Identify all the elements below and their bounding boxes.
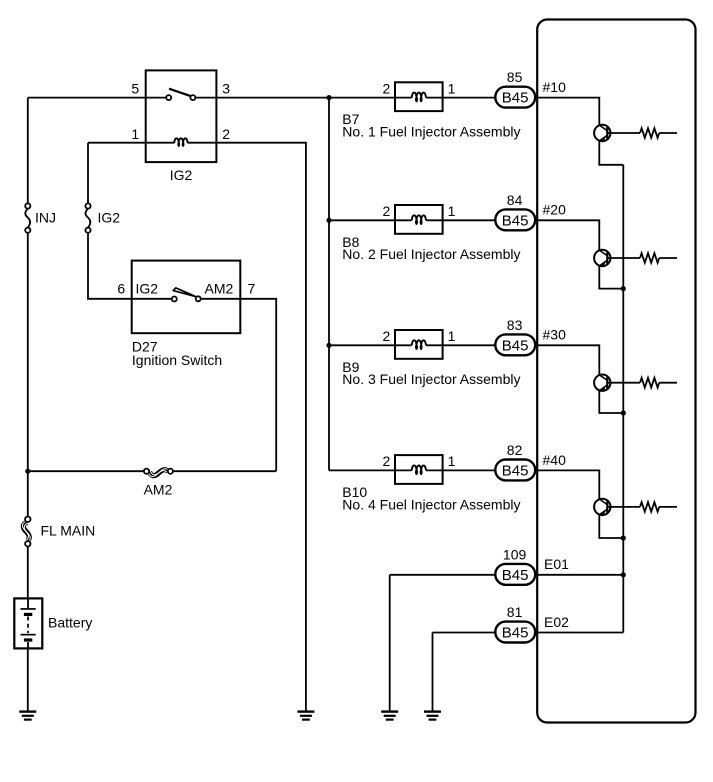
transistor (injector driver 4) (594, 499, 610, 516)
svg-text:IG2: IG2 (98, 210, 121, 226)
resistor (driver 4 base) (640, 502, 659, 512)
ground (E01) (381, 710, 398, 720)
relay IG2 box (146, 70, 217, 162)
svg-text:IG2: IG2 (170, 167, 193, 183)
transistor (injector driver 1) (594, 125, 610, 142)
svg-text:1: 1 (448, 80, 456, 96)
wire: filter to connector B45 row 1 (443, 97, 496, 99)
wire: D27 pin 7 down to AM2 wire (x=276.2) (201, 299, 277, 471)
svg-text:1: 1 (448, 203, 456, 219)
fusible link AM2 (144, 469, 173, 477)
svg-text:84: 84 (507, 192, 523, 208)
noise filter (injector) B8 box (395, 205, 443, 234)
ignition switch D27 box (132, 261, 241, 334)
svg-text:1: 1 (131, 126, 139, 142)
wire: transistor base (607, 132, 640, 134)
node: feed rail junction row 1 (326, 95, 331, 100)
svg-text:3: 3 (222, 80, 230, 96)
wire: E02 ground wire (y=632.5) (433, 633, 624, 712)
svg-text:FL MAIN: FL MAIN (41, 523, 96, 539)
connector B45 pin 85 (495, 87, 535, 108)
connector B45 pin 83 (495, 334, 535, 355)
wire: ECU pin #20 to transistor collector (535, 220, 599, 250)
wire: IG2 fuse vertical (x=88) (88, 143, 172, 299)
ground (E02) (424, 710, 441, 720)
svg-text:83: 83 (507, 317, 523, 333)
svg-text:Ignition Switch: Ignition Switch (132, 352, 222, 368)
injector coil B9 (395, 344, 443, 346)
svg-text:E02: E02 (544, 614, 569, 630)
svg-text:2: 2 (383, 203, 391, 219)
node: emitter rail junction y=413.0 (621, 410, 626, 415)
wire: ECU pin #10 to transistor collector (535, 98, 599, 126)
node: emitter rail junction y=288.6 (621, 286, 626, 291)
svg-text:7: 7 (248, 281, 256, 297)
wire: battery positive rail (left vertical, x=27.8) (27, 98, 29, 712)
noise filter (injector) B9 box (395, 330, 443, 359)
wire: transistor emitter to common rail (599, 515, 623, 538)
wire: common emitter/ground rail inside ECU (x=623.3) (622, 165, 624, 633)
D27 switch contacts (172, 288, 201, 302)
noise filter (injector) B7 box (395, 82, 443, 111)
wire: resistor tail (659, 132, 677, 134)
wire: injector feed rail (x=329) (328, 98, 330, 471)
wire: feed rail to noise filter B8 (329, 219, 395, 221)
svg-text:1: 1 (448, 328, 456, 344)
svg-text:B45: B45 (502, 212, 529, 229)
wire: ECU pin #30 to transistor collector (535, 345, 599, 375)
svg-text:6: 6 (117, 281, 125, 297)
svg-text:INJ: INJ (35, 210, 56, 226)
transistor (injector driver 2) (594, 250, 610, 267)
resistor (driver 1 base) (640, 128, 659, 138)
fusible link FL MAIN (22, 517, 30, 547)
connector B45 pin 81 (495, 622, 535, 643)
ground (relay coil) (297, 710, 314, 720)
svg-text:2: 2 (383, 453, 391, 469)
svg-text:#20: #20 (543, 202, 567, 218)
svg-text:AM2: AM2 (205, 281, 234, 297)
connector B45 pin 84 (495, 209, 535, 230)
relay IG2 switch contacts (166, 89, 195, 100)
svg-text:82: 82 (507, 442, 523, 458)
svg-text:2: 2 (383, 328, 391, 344)
wire: feed rail to noise filter B10 (329, 469, 395, 471)
node: emitter rail junction y=574.8 (621, 572, 626, 577)
injector coil B8 (395, 219, 443, 221)
svg-text:IG2: IG2 (136, 281, 159, 297)
ground (battery) (19, 710, 36, 720)
svg-text:B45: B45 (502, 625, 529, 642)
wire: transistor base (607, 382, 640, 384)
resistor (driver 3 base) (640, 378, 659, 388)
svg-text:#30: #30 (543, 327, 567, 343)
svg-text:B45: B45 (502, 463, 529, 480)
svg-text:No. 3 Fuel Injector Assembly: No. 3 Fuel Injector Assembly (342, 371, 520, 387)
svg-text:1: 1 (448, 453, 456, 469)
ECU (Engine Control Module) box (537, 20, 695, 723)
wire: relay pin 1 to IG2 fuse (y=142.7) (88, 142, 216, 144)
svg-text:No. 2 Fuel Injector Assembly: No. 2 Fuel Injector Assembly (342, 246, 520, 262)
svg-text:#10: #10 (543, 79, 567, 95)
wire: resistor tail (659, 257, 677, 259)
svg-text:81: 81 (507, 604, 523, 620)
svg-text:109: 109 (503, 546, 527, 562)
fuse INJ (25, 203, 30, 232)
fuse IG2 (85, 203, 90, 232)
injector coil B10 (395, 469, 443, 471)
injector coil B7 (395, 97, 443, 99)
wire: transistor emitter to common rail (599, 266, 623, 289)
svg-text:Battery: Battery (48, 615, 92, 631)
relay IG2 coil (174, 138, 187, 142)
wire: E01 ground wire (y=574.8) (390, 575, 624, 711)
wire: filter to connector B45 row 4 (443, 469, 496, 471)
battery (14, 598, 42, 648)
node: feed rail junction row 2 (326, 218, 331, 223)
wire: feed rail to noise filter B9 (329, 344, 395, 346)
noise filter (injector) B10 box (395, 455, 443, 484)
wire: ECU pin #40 to transistor collector (535, 470, 599, 499)
svg-text:AM2: AM2 (144, 481, 173, 497)
wire: relay pin 2 to ground rail (x=305.9) (216, 143, 306, 712)
svg-text:B45: B45 (502, 337, 529, 354)
wire: relay pin 3 to injector feed node (y=97.6) (195, 97, 395, 99)
connector B45 pin 109 (495, 564, 535, 585)
svg-text:No. 1 Fuel Injector Assembly: No. 1 Fuel Injector Assembly (342, 124, 520, 140)
transistor (injector driver 3) (594, 375, 610, 392)
wire: AM2 fusible link wire (y=471.2) (28, 470, 276, 472)
svg-text:#40: #40 (543, 452, 567, 468)
node: junction of battery rail with AM2 wire (25, 469, 30, 474)
svg-text:E01: E01 (544, 556, 569, 572)
svg-text:B45: B45 (502, 90, 529, 107)
svg-text:B45: B45 (502, 567, 529, 584)
svg-text:2: 2 (222, 126, 230, 142)
svg-text:85: 85 (507, 69, 523, 85)
wire: resistor tail (659, 382, 677, 384)
wire: transistor emitter to common rail (599, 141, 623, 165)
wire: battery rail to relay IG2 pin 5 (y=97.6) (28, 97, 166, 99)
svg-text:5: 5 (131, 80, 139, 96)
node: feed rail junction row 3 (326, 343, 331, 348)
node: emitter rail junction y=538.0 (621, 535, 626, 540)
svg-text:2: 2 (383, 80, 391, 96)
wire: transistor emitter to common rail (599, 391, 623, 413)
connector B45 pin 82 (495, 460, 535, 481)
wire: transistor base (607, 506, 640, 508)
svg-text:No. 4 Fuel Injector Assembly: No. 4 Fuel Injector Assembly (342, 496, 520, 512)
wire: resistor tail (659, 506, 677, 508)
wire: filter to connector B45 row 2 (443, 219, 496, 221)
wire: filter to connector B45 row 3 (443, 344, 496, 346)
resistor (driver 2 base) (640, 253, 659, 263)
wire: transistor base (607, 257, 640, 259)
coil loop dots (177, 142, 180, 147)
